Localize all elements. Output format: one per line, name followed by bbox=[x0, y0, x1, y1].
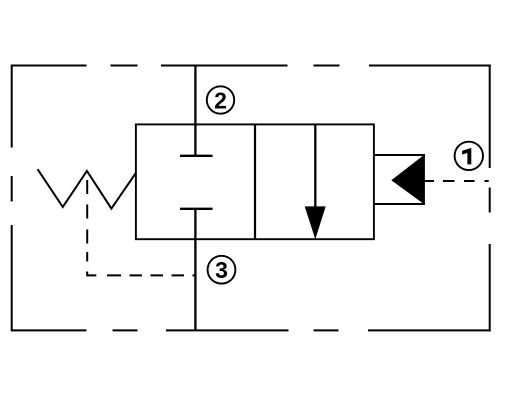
pilot line from spring (dashed, vertical) bbox=[86, 180, 88, 262]
enclosure right border (dashed) bbox=[489, 65, 491, 332]
spring bbox=[38, 169, 136, 208]
valve body position divider bbox=[254, 124, 256, 239]
port 3 line bbox=[194, 209, 196, 331]
flow path arrowhead bbox=[305, 206, 326, 239]
port 1 label bbox=[455, 142, 483, 170]
port 2 line bbox=[194, 66, 196, 156]
valve body envelope bbox=[136, 124, 374, 239]
pilot line port 1 (dashed) bbox=[425, 180, 489, 182]
enclosure bottom border (dashed) bbox=[11, 329, 491, 331]
pilot actuator top line bbox=[374, 154, 425, 156]
blocked port T (top) bbox=[180, 155, 213, 157]
svg-text:2: 2 bbox=[214, 87, 227, 113]
pilot line to port 3 (dashed, horizontal) bbox=[107, 274, 197, 276]
svg-text:3: 3 bbox=[215, 257, 228, 283]
enclosure left border (dashed) bbox=[11, 65, 13, 332]
port 2 label bbox=[207, 86, 234, 113]
blocked port T (bottom) bbox=[180, 208, 213, 210]
pilot actuator bottom line bbox=[374, 203, 425, 205]
flow path line bbox=[314, 124, 316, 215]
enclosure top border (dashed) bbox=[11, 65, 491, 67]
port 3 label bbox=[208, 256, 236, 284]
pilot line corner bbox=[87, 272, 96, 276]
pilot actuator triangle bbox=[391, 154, 425, 205]
